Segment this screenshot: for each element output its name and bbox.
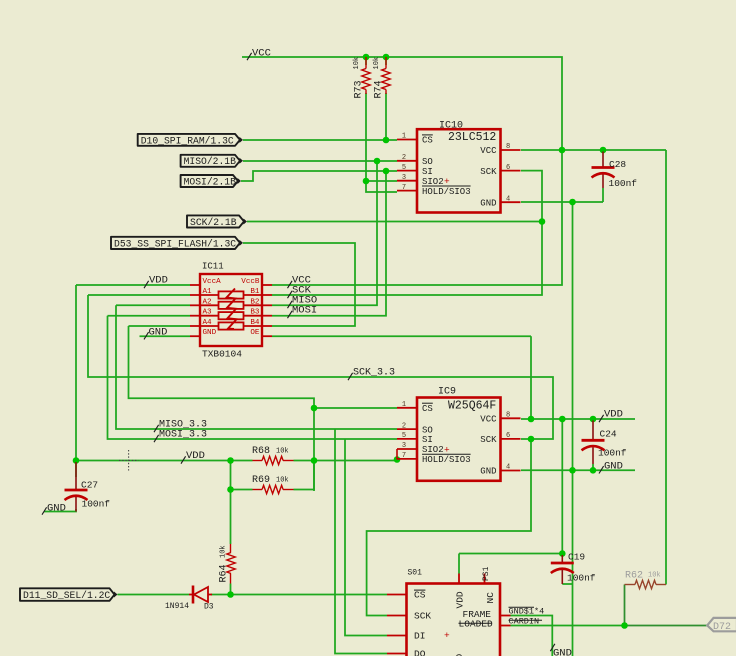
junction dot at (562.3,419) <box>559 416 566 423</box>
svg-text:R64: R64 <box>219 564 230 582</box>
svg-text:SIO2: SIO2 <box>422 445 444 455</box>
svg-text:D53_SS_SPI_FLASH/1.3C: D53_SS_SPI_FLASH/1.3C <box>114 238 236 249</box>
pin 6 (SCK) of IC9 <box>501 438 521 440</box>
pin PS1 of S01 (top) <box>484 574 486 584</box>
junction dot at (386,171) <box>383 168 390 175</box>
pin DO of S01 <box>387 653 407 655</box>
net label VCC (TXB VccB) <box>288 281 293 288</box>
svg-text:VDD: VDD <box>149 275 168 287</box>
wire R74 top <box>385 57 387 65</box>
svg-text:2: 2 <box>402 422 406 430</box>
svg-text:10k: 10k <box>648 572 661 580</box>
svg-text:LOADED: LOADED <box>459 619 494 630</box>
pin B2 of IC11 <box>262 304 272 306</box>
net label VDD (IC9) <box>599 415 604 422</box>
svg-text:3: 3 <box>402 174 406 182</box>
pin 7 (HOLD/SIO3) of IC10 <box>397 190 417 192</box>
resistor R62 leads <box>625 584 636 586</box>
IC IC9 W25Q64F body <box>417 398 501 481</box>
pin B1 of IC11 <box>262 294 272 296</box>
svg-text:C24: C24 <box>600 429 617 440</box>
svg-text:10k: 10k <box>373 57 381 70</box>
svg-text:2: 2 <box>402 154 406 162</box>
junction dot at (76,460.5) <box>73 457 80 464</box>
net flag MOSI/2.1B <box>181 175 241 187</box>
pin CARDIN of S01 <box>500 625 511 627</box>
wire R69 left lead row <box>231 489 253 491</box>
svg-text:10k: 10k <box>353 57 361 70</box>
junction dot at (386,140) <box>383 137 390 144</box>
wire VDD to TXB VccA <box>76 284 190 286</box>
wire TXB A4 row <box>129 325 191 327</box>
svg-text:C28: C28 <box>609 159 626 170</box>
wire to R69 row <box>230 472 232 490</box>
wire SCK_3.3 route to IC9 pin6 <box>88 295 553 439</box>
svg-text:MOSI/2.1B: MOSI/2.1B <box>184 176 237 187</box>
wire VDD to C27 top <box>75 461 77 478</box>
wire VDD branch down <box>230 461 232 472</box>
pin 4 (GND) of IC9 <box>501 470 521 472</box>
svg-text:10k: 10k <box>276 477 289 485</box>
pin 5 (SI) of IC9 <box>397 438 417 440</box>
wire D11 flag to diode D3 <box>118 594 190 596</box>
resistor R74 leads <box>385 57 387 69</box>
net label GND (bottom) <box>550 644 555 651</box>
net label GND (TXB) <box>144 332 149 339</box>
net label GND (IC9) <box>599 466 604 473</box>
svg-text:5: 5 <box>402 164 406 172</box>
wire TXB A1 row <box>88 294 190 296</box>
svg-text:GND: GND <box>203 329 217 337</box>
junction dot at (603,150) <box>600 147 607 154</box>
svg-text:VccA: VccA <box>203 278 222 286</box>
wire diode to SD CS <box>211 594 387 596</box>
junction dot at (230.5,489.5) <box>227 486 234 493</box>
resistor R64 <box>227 553 235 574</box>
wire R73 bottom to HOLD/SIO3 <box>366 93 397 192</box>
svg-text:1: 1 <box>402 401 406 409</box>
pin VccB of IC11 <box>262 284 272 286</box>
resistor R62 <box>635 580 656 588</box>
wire R64 bottom to CS row <box>230 584 232 595</box>
wire R69 right to CS net <box>294 461 315 490</box>
svg-text:MISO/2.1B: MISO/2.1B <box>184 156 237 167</box>
junction dot at (230.5,594.5) <box>227 591 234 598</box>
junction dot at (397,459.5) <box>394 456 401 463</box>
net label MOSI (TXB B3) <box>288 311 293 318</box>
svg-text:+: + <box>444 176 450 187</box>
wire SS_3.3 route down <box>129 326 315 491</box>
wire MISO flag to IC10 SO <box>243 160 397 162</box>
junction dot at (562,150) <box>559 147 566 154</box>
svg-text:+: + <box>444 630 450 641</box>
svg-text:100nf: 100nf <box>567 573 596 584</box>
svg-text:DO: DO <box>414 649 426 656</box>
svg-text:C27: C27 <box>81 480 98 491</box>
wire down to R64 <box>230 490 232 545</box>
dotted crosshair marker <box>119 450 139 471</box>
svg-text:VCC: VCC <box>480 146 497 156</box>
net label SCK_3.3 <box>348 373 353 380</box>
net flag D11_SD_SEL/1.2C <box>20 588 118 601</box>
wire SCK flag row <box>247 221 542 223</box>
svg-text:D72: D72 <box>713 622 731 633</box>
svg-text:VDD: VDD <box>604 409 623 421</box>
net label VDD (TXB VccA) <box>144 281 149 288</box>
svg-text:8: 8 <box>506 143 510 151</box>
svg-text:R68: R68 <box>252 446 270 457</box>
pin A1 of IC11 <box>190 294 200 296</box>
pin VccA of IC11 <box>190 284 200 286</box>
junction dot at (531,439) <box>528 436 535 443</box>
wire VDD down to C19 <box>561 419 563 554</box>
wire MOSI branch down to TXB B3 <box>272 171 386 316</box>
wire IC9 CS row <box>314 407 397 409</box>
svg-text:GND: GND <box>480 467 496 477</box>
pin 1 (CS) of IC10 <box>397 139 417 141</box>
net flag MISO/2.1B <box>181 155 243 167</box>
pin CS of S01 <box>387 594 407 596</box>
wire R74 bottom to CS row <box>385 93 387 140</box>
pin A4 of IC11 <box>190 325 200 327</box>
svg-text:IC10: IC10 <box>439 120 463 131</box>
svg-text:DI: DI <box>414 631 425 642</box>
svg-text:MOSI_3.3: MOSI_3.3 <box>159 430 207 441</box>
junction dot at (366,57) <box>363 54 370 61</box>
resistor R69 <box>262 485 283 493</box>
pin SCK of S01 <box>387 615 407 617</box>
svg-text:SIO2: SIO2 <box>422 177 444 187</box>
svg-text:+: + <box>444 445 450 456</box>
svg-text:GND: GND <box>47 503 66 515</box>
svg-text:D3: D3 <box>204 603 214 612</box>
junction dot at (593,470.3) <box>590 467 597 474</box>
wire C24 bottom green segment <box>592 464 594 470</box>
svg-text:VccB: VccB <box>241 278 260 286</box>
capacitor C24 <box>582 421 605 465</box>
pin3/pin7 tie bracket of IC9 <box>396 449 398 460</box>
IC IC11 TXB0104 body <box>200 274 262 346</box>
svg-text:IC11: IC11 <box>202 262 224 272</box>
net label MISO (TXB B2) <box>288 301 293 308</box>
wire GND label to TXB GND <box>140 335 191 337</box>
svg-text:100nf: 100nf <box>598 448 627 459</box>
svg-text:GND$1*4: GND$1*4 <box>509 607 545 617</box>
junction dot at (386,57) <box>383 54 390 61</box>
wire TXB A2 row <box>116 304 190 306</box>
wire MOSI_3.3 to IC9 SI <box>108 316 398 439</box>
pin 5 (SI) of IC10 <box>397 170 417 172</box>
pin 4 (GND) of IC10 <box>501 201 521 203</box>
net label VDD (mid) <box>181 456 186 463</box>
svg-text:R73: R73 <box>354 80 365 98</box>
svg-text:7: 7 <box>402 452 406 460</box>
svg-text:6: 6 <box>506 432 510 440</box>
svg-text:SO: SO <box>422 425 433 435</box>
wire GND rail down right side <box>572 202 574 656</box>
net label VCC (top) <box>247 53 252 60</box>
svg-text:IC9: IC9 <box>438 387 456 398</box>
svg-text:D11_SD_SEL/1.2C: D11_SD_SEL/1.2C <box>23 590 110 601</box>
pin 2 (SO) of IC9 <box>397 428 417 430</box>
pin 1 (CS) of IC9 <box>397 407 417 409</box>
net label GND (C27) <box>42 507 47 514</box>
resistor R74 <box>382 69 390 90</box>
junction dot at (624.5,625.5) <box>621 622 628 629</box>
pin B4 of IC11 <box>262 325 272 327</box>
svg-text:R74: R74 <box>374 80 385 98</box>
junction dot at (562.3,553.5) <box>559 550 566 557</box>
wire MISO_3.3 to IC9 SO <box>116 305 397 429</box>
svg-text:100nf: 100nf <box>609 178 638 189</box>
pin OE of IC11 <box>262 335 272 337</box>
junction dot at (366,181) <box>363 178 370 185</box>
net flag D72 (right edge, gray) <box>707 618 736 633</box>
wire OE row to right <box>272 335 531 337</box>
svg-text:CS: CS <box>422 136 433 146</box>
wire VDD left rail <box>75 285 77 461</box>
svg-text:MOSI: MOSI <box>292 305 317 317</box>
svg-text:1N914: 1N914 <box>165 602 189 611</box>
capacitor C19 <box>551 555 574 584</box>
capacitor C28 <box>592 152 615 189</box>
wire SIO2 row <box>366 180 397 182</box>
svg-text:SCK: SCK <box>414 611 431 622</box>
pin 3 (SIO2) of IC10 <box>397 180 417 182</box>
svg-text:R62: R62 <box>625 571 643 582</box>
svg-text:1: 1 <box>402 133 406 141</box>
pin A3 of IC11 <box>190 315 200 317</box>
resistor R73 leads <box>365 57 367 69</box>
svg-text:SI: SI <box>422 167 433 177</box>
svg-text:100nf: 100nf <box>82 499 111 510</box>
wire VCC to IC10 pin8 / C28 / right rail <box>521 149 666 151</box>
wire R68 to IC9 HOLD row <box>294 460 398 462</box>
svg-text:OE: OE <box>250 329 260 337</box>
junction dot at (572.5,470.3) <box>569 467 576 474</box>
pin 8 (VCC) of IC9 <box>501 417 521 419</box>
wire MISO branch down to TXB B2 <box>272 161 377 305</box>
wire R62 down to CARDIN <box>624 585 626 626</box>
svg-text:TXB0104: TXB0104 <box>202 349 242 360</box>
junction dot at (230.5,460.5) <box>227 457 234 464</box>
svg-text:SCK: SCK <box>480 167 497 177</box>
net flag D53_SS_SPI_FLASH/1.3C <box>111 237 243 250</box>
svg-text:3: 3 <box>402 442 406 450</box>
svg-text:VDD: VDD <box>454 591 465 608</box>
svg-text:S01: S01 <box>408 569 423 578</box>
wire MOSI flag to IC10 SI <box>241 171 397 181</box>
pin VDD of S01 (top) <box>458 574 460 584</box>
net label MISO_3.3 <box>154 425 159 432</box>
svg-text:4: 4 <box>506 464 510 472</box>
junction dot at (542,221.5) <box>539 218 546 225</box>
svg-text:23LC512: 23LC512 <box>448 131 496 144</box>
svg-text:SCK/2.1B: SCK/2.1B <box>190 217 237 228</box>
wire SD VDD pin up <box>458 554 460 574</box>
svg-text:PS1: PS1 <box>482 566 491 581</box>
capacitor C27 <box>65 462 88 512</box>
net flag D10_SPI_RAM/1.3C <box>138 134 243 146</box>
svg-text:VCC: VCC <box>480 415 497 425</box>
svg-text:SCK: SCK <box>480 435 497 445</box>
svg-text:CARDIN: CARDIN <box>509 617 540 627</box>
svg-text:R69: R69 <box>252 475 270 486</box>
svg-text:NC: NC <box>485 592 496 604</box>
pin GND$1 of S01 <box>500 615 511 617</box>
wire CARDIN row <box>511 625 625 627</box>
pin 3 (SIO2) of IC9 <box>397 448 417 450</box>
resistor R64 leads <box>230 544 232 553</box>
wire D10_SPI_RAM to IC10 CS <box>243 139 397 141</box>
svg-text:7: 7 <box>402 184 406 192</box>
wire MOSI_3.3 down to SD DI <box>345 439 387 636</box>
junction dot at (572.5,202) <box>569 199 576 206</box>
wire VCC net: top rail down to TXB VccB <box>242 57 562 285</box>
svg-text:CS: CS <box>422 404 433 414</box>
svg-text:10k: 10k <box>276 448 289 456</box>
pin A2 of IC11 <box>190 304 200 306</box>
wire R73 top <box>365 57 367 65</box>
wire SCK from IC10 pin6 down to TXB B1 <box>272 171 542 295</box>
SD card connector S01 body <box>407 584 501 656</box>
svg-text:HOLD/SIO3: HOLD/SIO3 <box>422 187 471 197</box>
resistor R73 <box>362 69 370 90</box>
svg-text:GND: GND <box>553 648 572 656</box>
wire GND row IC10 <box>521 201 603 203</box>
wire VDD row to R68 <box>76 460 253 462</box>
wire OE down to VDD row <box>530 336 532 419</box>
svg-text:GND: GND <box>480 198 496 208</box>
net label MOSI_3.3 <box>154 435 159 442</box>
net label SCK (TXB B1) <box>288 291 293 298</box>
svg-text:4: 4 <box>506 195 510 203</box>
svg-text:HOLD/SIO3: HOLD/SIO3 <box>422 455 471 465</box>
svg-text:GND: GND <box>149 327 168 339</box>
wire C27 bottom to GND label <box>44 509 76 512</box>
wire D53 flag to TXB B4 <box>243 243 355 326</box>
svg-text:SI: SI <box>422 435 433 445</box>
svg-text:VCC: VCC <box>252 48 271 60</box>
wire SD GND$1 to GND label <box>511 616 553 656</box>
IC IC10 23LC512 body <box>417 129 501 212</box>
svg-text:C19: C19 <box>568 552 585 563</box>
wire VDD row to C19 top <box>459 553 562 555</box>
junction dot at (593,419) <box>590 416 597 423</box>
pin 2 (SO) of IC10 <box>397 160 417 162</box>
pin 8 (VCC) of IC10 <box>501 149 521 151</box>
resistor R68 leads <box>253 460 263 462</box>
pin 6 (SCK) of IC10 <box>501 170 521 172</box>
svg-text:D10_SPI_RAM/1.3C: D10_SPI_RAM/1.3C <box>141 135 234 146</box>
svg-text:5: 5 <box>402 432 406 440</box>
junction dot at (377,161) <box>374 158 381 165</box>
wire MISO_3.3 down to SD DO <box>335 429 387 654</box>
svg-text:6: 6 <box>506 164 510 172</box>
pin GND of IC11 <box>190 335 200 337</box>
svg-text:SO: SO <box>422 157 433 167</box>
resistor R69 leads <box>253 489 263 491</box>
pin B3 of IC11 <box>262 315 272 317</box>
wire C28 bottom green segment <box>602 188 604 202</box>
wire C19 bottom jog to GND rail <box>562 583 572 585</box>
wire VDD row at IC9 pin8 <box>521 418 635 420</box>
svg-text:10k: 10k <box>220 545 228 558</box>
pin 7 (HOLD/SIO3) of IC9 <box>397 458 417 460</box>
svg-text:CS: CS <box>414 590 426 601</box>
junction dot at (531,419) <box>528 416 535 423</box>
diode D3 <box>189 586 212 604</box>
IC11 internal level-shifter cells <box>200 289 262 330</box>
resistor R68 <box>262 456 283 464</box>
wire GND row at IC9 pin4 <box>521 469 635 471</box>
wire TXB A3 row <box>108 315 191 317</box>
svg-text:VDD: VDD <box>186 450 205 462</box>
svg-text:W25Q64F: W25Q64F <box>448 399 496 412</box>
net flag SCK/2.1B <box>187 215 247 227</box>
wire CARDIN to D72 (muted) <box>625 625 707 627</box>
junction dot at (314,460.5) <box>311 457 318 464</box>
wire SCK_3.3 branch to SD SCK <box>367 439 531 616</box>
pin DI of S01 <box>387 635 407 637</box>
wire VCC right rail down to R62 <box>665 150 667 585</box>
svg-text:8: 8 <box>506 412 510 420</box>
svg-text:SCK_3.3: SCK_3.3 <box>353 368 395 379</box>
svg-text:GND: GND <box>604 461 623 473</box>
junction dot at (314,408) <box>311 405 318 412</box>
